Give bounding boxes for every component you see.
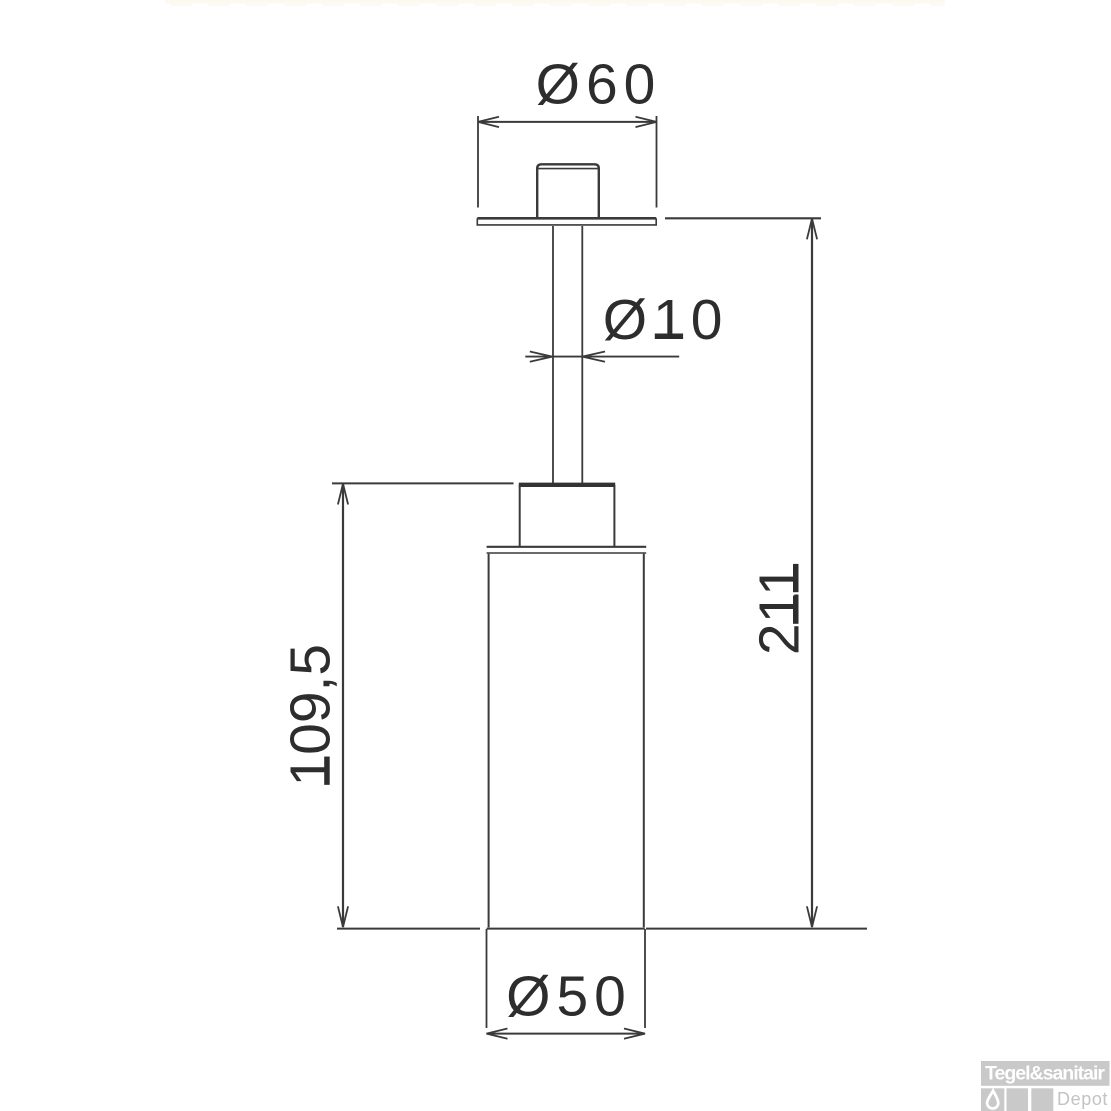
svg-text:Depot: Depot (1057, 1089, 1108, 1109)
svg-text:Ø50: Ø50 (506, 965, 632, 1029)
svg-text:211: 211 (748, 564, 812, 655)
svg-text:Ø10: Ø10 (603, 288, 729, 352)
svg-text:109,5: 109,5 (279, 644, 343, 787)
svg-text:Tegel&sanitair: Tegel&sanitair (985, 1063, 1105, 1085)
svg-text:Ø60: Ø60 (536, 52, 662, 116)
